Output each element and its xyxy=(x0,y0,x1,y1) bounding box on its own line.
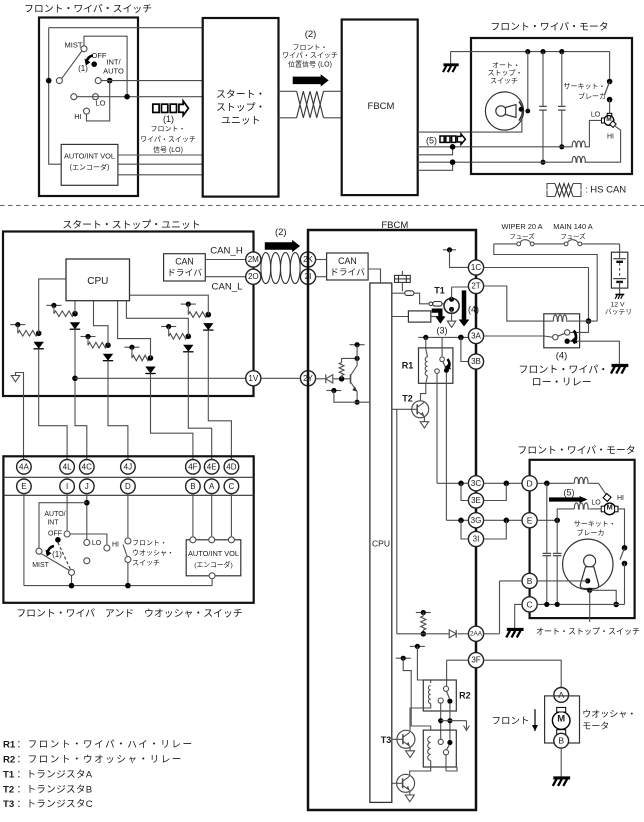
svg-text:フロント・ワイパ・モータ: フロント・ワイパ・モータ xyxy=(490,21,608,33)
svg-text:ワイパ・スイッチ: ワイパ・スイッチ xyxy=(140,136,196,144)
svg-text:4C: 4C xyxy=(82,462,92,471)
svg-text:：フロント・ウオッシャ・リレー: ：フロント・ウオッシャ・リレー xyxy=(17,755,183,766)
svg-text:J: J xyxy=(85,482,89,491)
svg-text:3F: 3F xyxy=(471,656,480,665)
svg-text:M: M xyxy=(557,713,565,724)
svg-text:フューズ: フューズ xyxy=(509,232,535,241)
svg-text:4E: 4E xyxy=(207,462,217,471)
svg-text:CPU: CPU xyxy=(372,539,390,549)
svg-text:ブレーカ: ブレーカ xyxy=(577,528,605,537)
svg-text:R1: R1 xyxy=(402,361,414,371)
svg-text:4A: 4A xyxy=(19,462,29,471)
svg-text:信号 (LO): 信号 (LO) xyxy=(153,145,183,154)
svg-text:M: M xyxy=(606,503,612,512)
svg-text:サーキット・: サーキット・ xyxy=(564,82,606,90)
svg-text:フロント・ワイパ・: フロント・ワイパ・ xyxy=(518,364,608,376)
svg-text:OFF: OFF xyxy=(92,51,107,60)
svg-text:T3: T3 xyxy=(3,799,14,810)
svg-text:4F: 4F xyxy=(188,462,197,471)
svg-text:R1: R1 xyxy=(3,740,16,751)
svg-text:12 V: 12 V xyxy=(611,302,625,309)
svg-text:(2): (2) xyxy=(305,29,317,40)
svg-text:3B: 3B xyxy=(471,357,481,366)
svg-text:3G: 3G xyxy=(471,516,482,525)
svg-text:ブレーカ: ブレーカ xyxy=(578,92,606,101)
svg-text:C: C xyxy=(229,482,235,491)
svg-text:HI: HI xyxy=(112,542,119,549)
svg-text:I: I xyxy=(66,482,68,491)
svg-text:(2): (2) xyxy=(275,227,287,238)
svg-text:4L: 4L xyxy=(63,462,72,471)
svg-text:(エンコーダ): (エンコーダ) xyxy=(70,163,110,172)
svg-text:フロント・ワイパ・モータ: フロント・ワイパ・モータ xyxy=(517,445,635,457)
svg-text:CPU: CPU xyxy=(87,276,108,287)
svg-text:：トランジスタA: ：トランジスタA xyxy=(17,769,93,780)
svg-text:位置信号 (LO): 位置信号 (LO) xyxy=(288,60,332,69)
svg-text:A: A xyxy=(558,690,564,700)
svg-text:ウオッシャ・: ウオッシャ・ xyxy=(132,549,174,557)
svg-text:A: A xyxy=(209,482,215,491)
svg-text:ワイパ・スイッチ: ワイパ・スイッチ xyxy=(282,52,338,60)
svg-text:LO: LO xyxy=(591,500,601,507)
svg-text:2M: 2M xyxy=(248,255,259,264)
svg-text:D: D xyxy=(125,482,131,491)
svg-text:2AA: 2AA xyxy=(470,630,483,637)
svg-text:D: D xyxy=(527,478,533,488)
svg-text:B: B xyxy=(190,482,195,491)
svg-text:LO: LO xyxy=(591,112,601,119)
svg-text:OFF: OFF xyxy=(48,531,62,538)
svg-text:スタート・ストップ・ユニット: スタート・ストップ・ユニット xyxy=(62,219,200,231)
svg-text:T1: T1 xyxy=(434,286,445,296)
svg-text:MAIN 140 A: MAIN 140 A xyxy=(553,222,593,231)
svg-text:：フロント・ワイパ・ハイ・リレー: ：フロント・ワイパ・ハイ・リレー xyxy=(17,740,194,751)
svg-text:C: C xyxy=(527,599,533,609)
svg-text:3I: 3I xyxy=(473,535,480,544)
svg-text:T1: T1 xyxy=(3,769,15,780)
svg-text:フロント・ワイパ・スイッチ: フロント・ワイパ・スイッチ xyxy=(24,3,152,15)
svg-text:フロント: フロント xyxy=(491,716,529,727)
svg-text:フロント・ワイパ アンド ウオッシャ・スイッチ: フロント・ワイパ アンド ウオッシャ・スイッチ xyxy=(16,608,243,620)
svg-text:WIPER 20 A: WIPER 20 A xyxy=(501,222,542,231)
svg-text:HI: HI xyxy=(617,495,624,502)
svg-text:AUTO/: AUTO/ xyxy=(44,511,65,518)
svg-text:CAN: CAN xyxy=(338,256,357,266)
svg-text:1C: 1C xyxy=(471,263,481,272)
svg-text:MIST: MIST xyxy=(65,41,83,50)
svg-text:オート・: オート・ xyxy=(492,62,520,70)
svg-text:E: E xyxy=(21,482,26,491)
svg-text:R2: R2 xyxy=(459,690,471,700)
svg-text:T3: T3 xyxy=(381,735,392,745)
svg-text:(4): (4) xyxy=(468,305,479,315)
svg-text:サーキット・: サーキット・ xyxy=(574,520,616,528)
svg-text:CAN: CAN xyxy=(175,257,194,267)
svg-text:AUTO: AUTO xyxy=(103,67,124,76)
svg-text:4J: 4J xyxy=(124,462,132,471)
svg-text:(1): (1) xyxy=(78,64,88,73)
svg-text:フロント・: フロント・ xyxy=(293,44,328,52)
svg-text:：トランジスタC: ：トランジスタC xyxy=(17,799,93,810)
svg-text:3C: 3C xyxy=(471,479,481,488)
svg-text:T2: T2 xyxy=(3,784,14,795)
svg-text:(3): (3) xyxy=(437,326,448,336)
svg-text:：トランジスタB: ：トランジスタB xyxy=(17,784,93,795)
svg-text:(4): (4) xyxy=(556,351,568,362)
svg-text:モータ: モータ xyxy=(582,721,609,731)
svg-text:4D: 4D xyxy=(226,462,236,471)
svg-text:M: M xyxy=(606,116,611,123)
svg-text:3E: 3E xyxy=(471,496,481,505)
svg-text:INT/: INT/ xyxy=(106,58,121,67)
svg-text:LO: LO xyxy=(95,99,105,108)
svg-text:スタート・: スタート・ xyxy=(216,89,265,101)
svg-text:フロント・: フロント・ xyxy=(132,539,167,547)
svg-text:1V: 1V xyxy=(248,374,258,383)
svg-text:ロー・リレー: ロー・リレー xyxy=(532,378,592,389)
svg-text:B: B xyxy=(527,576,533,586)
svg-text:(5): (5) xyxy=(564,488,575,498)
svg-text:FBCM: FBCM xyxy=(368,101,395,112)
svg-text:E: E xyxy=(527,515,533,525)
svg-text:(エンコーダ): (エンコーダ) xyxy=(194,560,233,569)
svg-text:MIST: MIST xyxy=(32,562,49,569)
svg-text:3A: 3A xyxy=(471,332,481,341)
svg-text:スイッチ: スイッチ xyxy=(132,559,160,567)
svg-text:2O: 2O xyxy=(248,272,259,281)
svg-text:R2: R2 xyxy=(3,755,15,766)
svg-text:CAN_L: CAN_L xyxy=(212,282,244,293)
svg-text:(1): (1) xyxy=(52,550,62,559)
svg-text:ユニット: ユニット xyxy=(221,116,261,127)
svg-text:: HS CAN: : HS CAN xyxy=(585,185,626,196)
svg-text:B: B xyxy=(558,736,564,746)
svg-text:ドライバ: ドライバ xyxy=(167,268,202,278)
svg-text:オート・ストップ・スイッチ: オート・ストップ・スイッチ xyxy=(536,627,640,636)
svg-text:(5): (5) xyxy=(426,136,437,146)
svg-text:LO: LO xyxy=(92,540,102,547)
svg-text:スイッチ: スイッチ xyxy=(490,77,518,85)
svg-text:(1): (1) xyxy=(163,114,174,124)
svg-text:HI: HI xyxy=(607,134,614,141)
svg-text:ストップ・: ストップ・ xyxy=(488,69,523,77)
svg-text:T2: T2 xyxy=(402,394,413,404)
svg-text:ストップ・: ストップ・ xyxy=(216,102,265,114)
svg-text:フューズ: フューズ xyxy=(560,232,586,241)
svg-text:CAN_H: CAN_H xyxy=(210,246,243,257)
svg-text:HI: HI xyxy=(74,112,82,121)
svg-text:AUTO/INT VOL: AUTO/INT VOL xyxy=(64,152,115,161)
svg-text:フロント・: フロント・ xyxy=(151,125,186,133)
svg-text:2T: 2T xyxy=(471,282,480,291)
svg-text:ドライバ: ドライバ xyxy=(330,267,365,277)
svg-text:バッテリ: バッテリ xyxy=(605,308,632,316)
svg-text:INT: INT xyxy=(47,520,59,527)
svg-text:ウオッシャ・: ウオッシャ・ xyxy=(582,709,636,719)
svg-text:AUTO/INT VOL: AUTO/INT VOL xyxy=(188,549,239,558)
